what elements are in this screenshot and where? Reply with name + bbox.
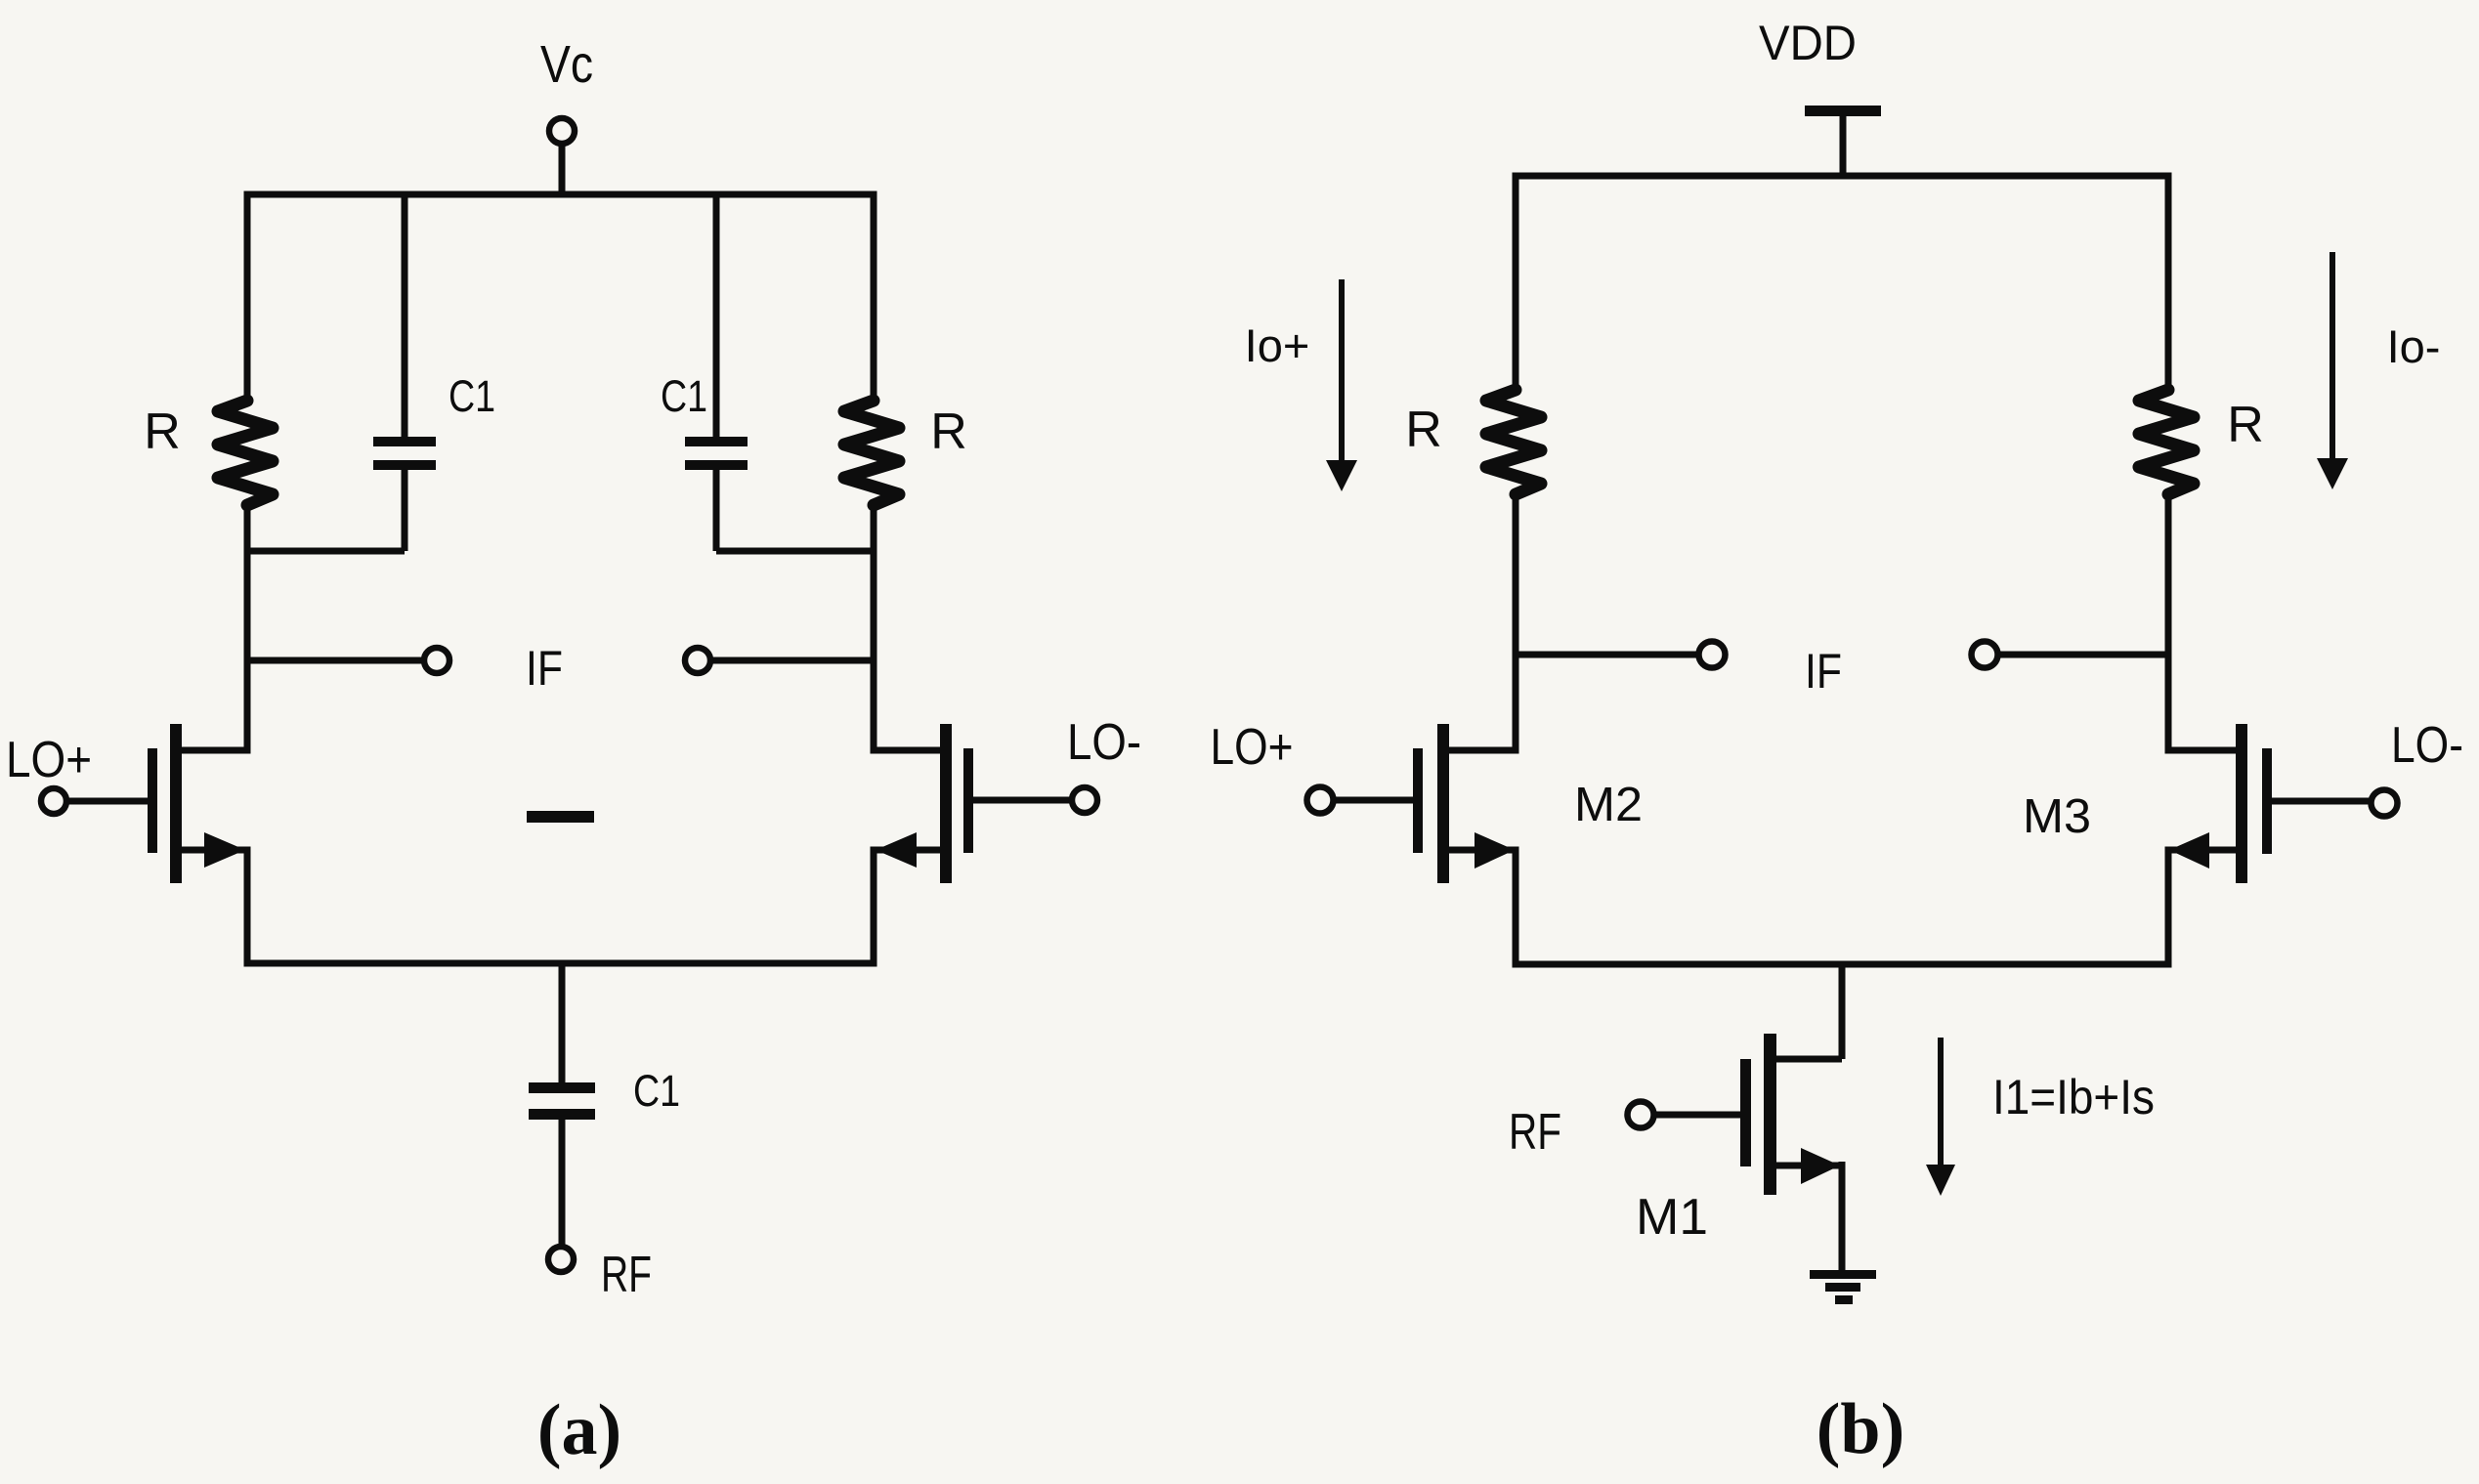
svg-text:M2: M2 <box>1574 779 1643 831</box>
svg-text:C1: C1 <box>661 371 707 421</box>
svg-text:M3: M3 <box>2023 790 2091 843</box>
svg-text:LO+: LO+ <box>6 732 92 788</box>
svg-text:LO-: LO- <box>1067 714 1141 771</box>
svg-text:R: R <box>930 403 967 460</box>
svg-text:(b): (b) <box>1817 1389 1904 1469</box>
svg-text:(a): (a) <box>537 1390 621 1470</box>
svg-text:LO-: LO- <box>2391 717 2463 774</box>
svg-text:LO+: LO+ <box>1211 719 1294 776</box>
svg-text:Vc: Vc <box>540 35 593 94</box>
svg-text:R: R <box>1405 402 1442 458</box>
svg-text:M1: M1 <box>1636 1189 1708 1246</box>
svg-text:R: R <box>2227 397 2264 453</box>
svg-text:Io+: Io+ <box>1245 319 1310 371</box>
svg-text:IF: IF <box>526 641 563 696</box>
svg-text:I1=Ib+Is: I1=Ib+Is <box>1992 1070 2155 1124</box>
svg-text:C1: C1 <box>449 371 495 421</box>
svg-text:R: R <box>144 403 181 460</box>
svg-text:RF: RF <box>1509 1104 1561 1161</box>
svg-text:RF: RF <box>601 1247 652 1303</box>
svg-text:VDD: VDD <box>1759 16 1857 70</box>
svg-text:IF: IF <box>1805 644 1842 699</box>
svg-text:C1: C1 <box>633 1066 680 1116</box>
svg-text:Io-: Io- <box>2387 320 2441 372</box>
